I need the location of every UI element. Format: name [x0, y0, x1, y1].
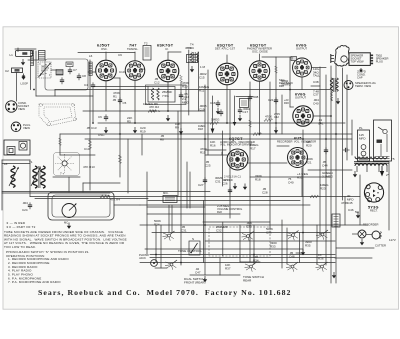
wire left edge y=160: [2, 159, 30, 161]
capacitor C6: [98, 114, 108, 121]
wire y=214 low: [147, 213, 240, 215]
capacitor C43: [343, 148, 350, 152]
ground right column: [336, 98, 340, 104]
coil L5 top mid: [39, 51, 46, 61]
arrow marker under T4: [190, 66, 194, 72]
svg-text:REAR: REAR: [243, 279, 252, 283]
svg-text:47K R13: 47K R13: [83, 165, 95, 169]
wire bus y=254.5: [150, 254, 335, 256]
ground arrow g4: [179, 128, 183, 134]
wire y=248 right: [336, 247, 374, 249]
wire x=303 y=253: [296, 252, 303, 254]
choke L6 adjustable: [4, 162, 19, 187]
wire y=57 link V5-V6: [262, 56, 292, 58]
wire y=193 left: [2, 192, 110, 194]
power transformer T5: [354, 157, 395, 173]
svg-text:C27: C27: [198, 183, 204, 187]
svg-text:C7: C7: [73, 68, 77, 72]
wire x=203.5 drop low: [203, 201, 205, 263]
svg-text:∗∗ — PART OF T2: ∗∗ — PART OF T2: [6, 225, 36, 229]
ground under recorder jack: [360, 239, 364, 245]
ground arrow g5: [216, 108, 220, 114]
tube V5 6SQ7GT PHONO INVERTER: [247, 44, 272, 82]
svg-text:R23: R23: [320, 187, 326, 191]
svg-text:T2: T2: [144, 42, 148, 46]
svg-text:L6: L6: [89, 54, 93, 58]
svg-text:C38: C38: [313, 80, 319, 84]
ground arrow g10: [233, 183, 237, 189]
wire bus y=139: [85, 138, 352, 140]
svg-text:FRONT (REAR): FRONT (REAR): [184, 281, 205, 285]
label R18: [198, 124, 205, 131]
svg-text:R8: R8: [160, 138, 164, 142]
wire top link y=52: [78, 52, 135, 54]
svg-text:470K: 470K: [265, 115, 272, 119]
svg-text:C12: C12: [154, 81, 160, 85]
svg-text:DET.-A.V.C.-1ST: DET.-A.V.C.-1ST: [215, 47, 235, 51]
svg-text:7 +: 7 +: [60, 172, 65, 176]
wire x=36 antenna drop: [35, 51, 37, 78]
resistor R4: [100, 195, 120, 202]
svg-text:R31: R31: [297, 176, 303, 180]
svg-text:TALL: TALL: [313, 74, 320, 78]
capacitor C17: [238, 107, 251, 114]
wire x=178 chassis edge: [177, 111, 179, 197]
svg-text:C31: C31: [215, 180, 221, 184]
wire drop V3: [167, 82, 169, 111]
svg-text:R17: R17: [250, 147, 256, 151]
wire top link2 y=53: [168, 51, 181, 53]
capacitor C5: [112, 97, 127, 105]
svg-text:OUTPUT: OUTPUT: [295, 96, 306, 100]
wire x=389 right drop: [388, 162, 390, 230]
wire y=262.5 low bus: [140, 262, 335, 264]
wire x=161 drop: [160, 225, 162, 268]
wire 6U5 cathode drop: [301, 168, 303, 197]
svg-text:TERM. VIEW: TERM. VIEW: [355, 84, 371, 88]
wire x=222.8 drop low: [222, 222, 224, 256]
wire x=352 drop: [351, 120, 353, 155]
svg-text:VIEW: VIEW: [18, 107, 25, 111]
resistor R12: [264, 115, 272, 122]
ground arrow g1: [104, 127, 108, 133]
resistor R26 vertical: [180, 75, 183, 82]
tube V1 6J5GT OSC: [96, 44, 117, 81]
volume wiper arrow 2: [212, 96, 214, 130]
speaker plug terminal view socket: [344, 81, 376, 90]
svg-text:R5: R5: [127, 120, 131, 124]
wire vertical x=198.5: [198, 52, 200, 111]
svg-text:C42: C42: [274, 115, 279, 119]
svg-text:L1: L1: [10, 53, 14, 57]
wire y=67 V6 right: [312, 67, 327, 69]
capacitor C4: [84, 82, 95, 89]
svg-text:R30: R30: [284, 101, 289, 105]
gang dots: [40, 64, 51, 77]
svg-text:C11: C11: [140, 67, 146, 71]
wire x=360 bottom right drop: [359, 175, 361, 225]
wire x=128 mid drop: [127, 139, 129, 193]
wire x=220 drop low: [219, 258, 221, 275]
wire bus y=123: [98, 122, 345, 124]
svg-text:C44: C44: [322, 164, 328, 168]
resistor R25 vertical: [118, 155, 121, 163]
wire drop V2: [134, 81, 136, 124]
svg-text:1MEG: 1MEG: [211, 118, 220, 122]
wire stub V3 top: [167, 52, 169, 61]
wire y=241 low: [205, 240, 335, 242]
resistor R38 vertical: [59, 138, 62, 145]
svg-text:CUTTER: CUTTER: [375, 244, 386, 248]
svg-text:PLUG: PLUG: [376, 60, 383, 64]
oscillator section rounded box: [45, 59, 88, 90]
svg-text:TRANSL.: TRANSL.: [127, 47, 139, 51]
arrow below L1: [21, 59, 25, 65]
pilot lamp box A: [358, 126, 370, 161]
ground arrow g10b: [243, 184, 247, 190]
svg-text:C31: C31: [181, 229, 187, 233]
svg-text:1 M: 1 M: [200, 65, 206, 69]
svg-text:7. P.A. MICROPHONE AND RADIO: 7. P.A. MICROPHONE AND RADIO: [8, 280, 61, 284]
divider box R29: [240, 99, 249, 108]
svg-text:C19: C19: [199, 108, 205, 112]
svg-text:C4: C4: [84, 83, 88, 87]
ground arrow g8: [301, 249, 305, 255]
svg-text:C46: C46: [348, 208, 354, 212]
wire vertical x=230: [229, 90, 231, 218]
rotary switch S1c: [242, 232, 254, 242]
svg-text:C47: C47: [195, 271, 201, 275]
wire vertical x=347: [346, 75, 348, 160]
caption title: [38, 288, 292, 297]
wire vertical x=205: [204, 85, 206, 275]
svg-text:C26: C26: [222, 182, 228, 186]
wire y=165 v8 to v9: [247, 162, 287, 164]
wire vertical x=90: [89, 60, 91, 190]
electrolytic cap label: [357, 68, 366, 80]
wire x=240 drop low: [239, 225, 241, 262]
svg-text:R33: R33: [270, 245, 276, 249]
svg-text:OSC.: OSC.: [101, 47, 108, 51]
svg-text:VOL. INDICATOR DRIVER: VOL. INDICATOR DRIVER: [220, 143, 252, 147]
svg-text:R11: R11: [199, 89, 205, 93]
wire phono to controls y=205: [114, 204, 140, 206]
svg-text:C9: C9: [118, 53, 122, 57]
microphone jack box: [163, 191, 177, 203]
socket view X1: [6, 101, 30, 112]
svg-text:C25: C25: [205, 164, 211, 168]
wire B+ bus y=134: [60, 133, 352, 135]
svg-text:.008: .008: [253, 95, 259, 99]
svg-text:C45: C45: [347, 201, 353, 205]
ground arrow g9: [332, 272, 336, 278]
wire y=232.5 low bus: [152, 232, 330, 234]
svg-text:R19: R19: [140, 130, 146, 134]
wire x=16.5 loop drop: [16, 73, 18, 102]
svg-text:VIEW: VIEW: [23, 126, 30, 130]
wire x=172 drop low: [171, 205, 173, 232]
rotary switch S1h: [316, 262, 328, 272]
trimmer C3 in osc box: [66, 62, 73, 67]
svg-text:OSC. DIODE: OSC. DIODE: [252, 49, 268, 53]
wire y=150: [205, 149, 226, 151]
svg-text:C16: C16: [210, 101, 216, 105]
resistor R30: [310, 195, 318, 198]
wire x=299.6 drop low: [299, 233, 301, 263]
tone control dashed box: [209, 227, 270, 256]
ground near C48: [356, 212, 360, 218]
rotary switch S1b: [165, 260, 177, 270]
wire y=146 x277-327: [277, 145, 289, 147]
svg-text:JACK: JACK: [139, 256, 146, 260]
svg-text:R21: R21: [306, 161, 312, 165]
recorder jacks bottom right: [352, 223, 386, 248]
svg-text:MEG: MEG: [182, 101, 190, 105]
wire y=90 stub left: [54, 90, 56, 97]
svg-text:R10: R10: [182, 85, 188, 89]
power switch box B: [374, 120, 392, 161]
wire y=108 V7 left: [290, 106, 294, 108]
svg-text:3.3% L: 3.3% L: [150, 109, 161, 113]
IF transformer T2 box: [143, 42, 151, 61]
wire x=30.5 drop: [30, 66, 32, 90]
wire y=200.5 low bus: [148, 200, 300, 202]
svg-text:C2: C2: [5, 69, 9, 73]
svg-text:R28: R28: [279, 84, 284, 88]
svg-text:T: T: [292, 57, 294, 61]
B+ arrow under transformer: [380, 166, 384, 177]
wire lamp box bottom y=177: [53, 176, 80, 178]
svg-text:R34: R34: [253, 259, 259, 263]
switch S box: [189, 241, 200, 255]
labels right power area: [322, 160, 396, 242]
tuning gang capacitor C1: [38, 62, 51, 78]
svg-text:PL: PL: [359, 126, 363, 130]
svg-text:47K R4: 47K R4: [110, 198, 120, 202]
wire vertical x=188.8: [188, 50, 190, 115]
wire drop V4: [226, 85, 228, 123]
wire vertical x=336: [335, 64, 337, 283]
labels top area between V1 V2: [86, 53, 180, 142]
svg-text:L8: L8: [4, 162, 8, 166]
rotary switch S1a: [163, 231, 175, 241]
rotary switch S1f: [286, 262, 298, 272]
svg-text:TOO LOW TO READ.: TOO LOW TO READ.: [4, 245, 36, 249]
wire x=83 phono top2: [82, 183, 84, 192]
tube V4 6SQ7GT DET-AVC-1ST: [215, 44, 238, 85]
IF T4 box: [187, 55, 198, 63]
capacitor C18: [248, 94, 259, 101]
wire y=86 V6 to bus: [311, 85, 320, 87]
svg-text:.05: .05: [112, 98, 117, 102]
svg-text:C41: C41: [318, 122, 324, 126]
svg-text:Sears, Roebuck and Co. Model: Sears, Roebuck and Co. Model 7070. Facto…: [38, 288, 292, 297]
capacitor C29: [203, 177, 207, 184]
capacitor C21: [268, 97, 278, 104]
wire left x=30 drop: [29, 160, 31, 197]
svg-text:OSC: OSC: [98, 133, 105, 137]
svg-text:10MEG R6: 10MEG R6: [143, 102, 158, 106]
svg-text:.05 C13: .05 C13: [86, 126, 97, 130]
labels mid column x200: [182, 43, 210, 112]
wiper arrowhead 2: [211, 129, 215, 134]
wire y=170: [308, 169, 352, 171]
wire x=190 drop: [189, 172, 191, 208]
label NEG FEEDBACK: [0, 0, 1, 1]
wire bus y=155 mid: [205, 154, 227, 156]
wire bus y=155 left: [60, 154, 95, 156]
svg-text:R1: R1: [113, 95, 117, 99]
wire y=96.5: [236, 96, 253, 98]
resistor R3: [210, 118, 220, 125]
loop arrow: [21, 74, 29, 86]
wire y=49 antenna top link: [15, 48, 36, 50]
wire y=258 right: [335, 257, 372, 259]
wire x=52 gang to box: [51, 69, 56, 71]
svg-text:MFD: MFD: [359, 137, 366, 141]
ballast resistor box: [332, 214, 340, 227]
wire y=96: [36, 95, 93, 97]
svg-text:C6: C6: [98, 115, 102, 119]
capacitor C30: [228, 187, 232, 194]
wire drop V5: [259, 81, 261, 134]
svg-text:C5: C5: [123, 101, 127, 105]
wire vertical x=290: [289, 57, 291, 107]
choke T1 double winding: [29, 160, 45, 188]
wire vertical x=270: [269, 82, 271, 228]
wire bus y=257.5: [150, 257, 335, 259]
capacitor C24: [22, 201, 32, 212]
wire vertical x=341: [342, 68, 344, 200]
capacitor C8: [77, 73, 86, 80]
wire x=69 phono top: [68, 177, 70, 192]
svg-text:TONE CONTROL: TONE CONTROL: [178, 249, 202, 253]
wire stub V4 top: [226, 55, 228, 63]
wire y=183: [83, 182, 120, 184]
svg-text:C36: C36: [266, 231, 272, 235]
wire stub V1 top: [105, 52, 107, 60]
wire y=116 V7 right: [313, 115, 331, 117]
wire drop V6: [301, 77, 303, 90]
wire vertical x=326: [325, 75, 327, 265]
svg-text:R15: R15: [200, 151, 206, 155]
crystal pickup box: [4, 140, 30, 155]
wire x=36 drop2: [35, 78, 37, 96]
wire x=345 low drop: [344, 197, 346, 226]
wire y=249 low: [145, 248, 303, 250]
tube V2 7H7 TRANSL: [125, 44, 145, 81]
svg-text:OUTPUT: OUTPUT: [296, 47, 307, 51]
wire x=60 y=134 drop: [59, 134, 61, 155]
rotary switch S1e: [287, 231, 299, 241]
wire y=198.5: [35, 198, 148, 200]
ground arrow g11: [203, 276, 207, 282]
resistor R27 vertical: [249, 120, 252, 127]
wire bus y=196.5: [30, 196, 360, 198]
phono jack circle: [139, 253, 157, 266]
labels lower mid: [83, 140, 329, 195]
svg-text:C40: C40: [288, 181, 294, 185]
small box TOP near V6: [291, 57, 297, 61]
resistor R2: [148, 105, 159, 113]
svg-text:C37: C37: [313, 93, 319, 97]
svg-text:R9: R9: [175, 126, 179, 130]
capacitor C14: [179, 92, 190, 99]
tube V3 6SK7GT IF: [157, 44, 179, 82]
wire x=287 drop low: [286, 228, 288, 264]
resistor R1 in osc box: [56, 70, 63, 76]
ground arrow g2: [133, 127, 137, 133]
ground arrow g12: [353, 171, 357, 177]
svg-text:CAP: CAP: [357, 76, 363, 80]
svg-text:RECT.: RECT.: [370, 209, 378, 213]
svg-text:R24: R24: [154, 223, 160, 227]
wire y=86.5 osc top: [93, 86, 148, 88]
svg-text:I.F.: I.F.: [165, 47, 169, 51]
oscillator coil box L7: [146, 85, 187, 105]
wire ground bus y=177 right: [250, 176, 330, 178]
svg-text:RECORDER: RECORDER: [363, 223, 378, 227]
svg-text:C32: C32: [216, 229, 222, 233]
wire x=254 drop low: [253, 225, 255, 264]
svg-text:C17: C17: [243, 110, 249, 114]
svg-text:C40: C40: [313, 102, 319, 106]
tube V8 6Q7GT AUDIO AMPL: [220, 137, 255, 182]
svg-text:R16: R16: [210, 144, 216, 148]
svg-text:R37: R37: [225, 267, 231, 271]
tube V7 6V6G OUTPUT lower: [293, 93, 313, 127]
wire vertical x=320: [319, 67, 321, 235]
wire vertical x=250: [249, 82, 251, 262]
right column labels near V6: [313, 67, 324, 126]
svg-text:S: S: [192, 237, 194, 241]
output transformer T4: [330, 78, 338, 101]
ground arrow g3: [166, 115, 170, 121]
wire y=268 low: [155, 267, 167, 269]
wire y=225 right link: [332, 224, 368, 226]
tube V6 6V6G OUTPUT upper: [293, 44, 312, 77]
svg-text:.004: .004: [22, 201, 28, 205]
ground arrow g6: [238, 115, 242, 121]
label feedback: [279, 78, 293, 88]
wire vertical x=120: [119, 78, 121, 177]
svg-text:LOOP: LOOP: [21, 82, 29, 86]
junction dot x34 y89.5: [33, 89, 35, 91]
svg-text:R22: R22: [217, 210, 222, 214]
svg-text:C15: C15: [199, 76, 205, 80]
svg-text:MIC.: MIC.: [163, 191, 169, 195]
ground arrow g7: [274, 127, 278, 133]
wire vertical x=303: [302, 130, 304, 253]
resistor R7 vertical: [88, 140, 91, 148]
svg-text:R18: R18: [198, 127, 203, 131]
wire x=93 drop: [92, 90, 94, 123]
volume control label: [217, 204, 243, 214]
svg-text:C33: C33: [246, 225, 252, 229]
svg-text:R36: R36: [318, 257, 324, 261]
wire x=282 v7 left drop: [281, 95, 283, 134]
volume wiper arrow: [234, 96, 236, 124]
wiper arrowhead: [233, 122, 237, 126]
svg-text:C10: C10: [84, 147, 90, 151]
svg-text:2.2MEG: 2.2MEG: [322, 175, 334, 179]
svg-text:C48: C48: [289, 255, 295, 259]
wire left x=2 drop: [1, 160, 3, 210]
wire vertical x=208: [207, 70, 209, 155]
labels bottom switch area: [154, 219, 324, 285]
wire x=222.5 mid drop: [222, 131, 224, 186]
speaker plug top right: [331, 45, 389, 66]
